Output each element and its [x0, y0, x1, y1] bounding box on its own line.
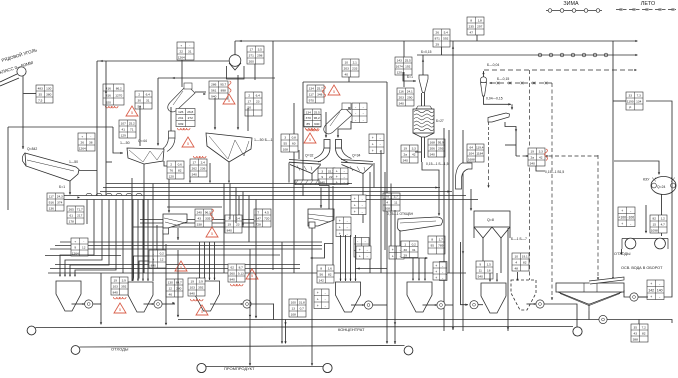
wire elbow b: [235, 188, 237, 224]
svg-text:9,13: 9,13: [238, 272, 244, 276]
feeder bar under centrifuges: [295, 180, 319, 185]
svg-text:130: 130: [168, 281, 173, 285]
svg-text:0,6: 0,6: [178, 163, 183, 167]
svg-text:338: 338: [197, 223, 202, 227]
pump thickener overflow: [630, 293, 638, 301]
svg-text:+: +: [317, 298, 319, 302]
wire vertical x449: [448, 130, 450, 273]
left centrifuge flare pipe: [314, 148, 330, 162]
wire H2 elbow feed b: [139, 230, 163, 279]
svg-text:416: 416: [106, 86, 111, 90]
wire main vertical x273: [272, 41, 274, 270]
svg-text:12: 12: [169, 287, 173, 291]
svg-text:0,15—1 Б—1,5: 0,15—1 Б—1,5: [426, 162, 449, 166]
svg-text:7,3: 7,3: [637, 94, 642, 98]
hopper bin H1: [56, 281, 81, 311]
plus-minus table right of centrifuges: [369, 134, 384, 154]
wire dashed vertical x552: [551, 83, 553, 300]
wire bus y255: [150, 254, 280, 256]
wire C4 feed: [403, 72, 416, 81]
svg-text:+: +: [392, 248, 394, 252]
arrowhead feed H2 0: [132, 279, 134, 281]
pump P3: [243, 300, 251, 308]
screen S1 inclined screen body: [22, 153, 79, 181]
wire T15 feed: [403, 41, 405, 57]
table T29: [254, 209, 271, 227]
product line circle left (concentrate): [27, 326, 36, 335]
svg-text:816: 816: [106, 93, 111, 97]
svg-text:2: 2: [138, 93, 140, 97]
triangle marker 5 centrifuges: [304, 133, 316, 143]
wire riser x453: [452, 41, 454, 330]
arrowhead H1 feed 1: [59, 275, 61, 277]
wire feed S3 a: [214, 98, 216, 129]
arrowhead x453 onto L1: [452, 327, 454, 330]
red perforation under T35: [190, 299, 203, 301]
arrowhead S4 out descent: [515, 129, 517, 132]
wire C5 vent up: [483, 71, 485, 77]
svg-text:Р: Р: [629, 106, 631, 110]
svg-text:+: +: [372, 143, 374, 147]
svg-text:-: -: [355, 118, 356, 122]
wire dashed vertical x529: [529, 70, 531, 298]
label othody right: [614, 252, 631, 256]
label 0,15-1 link: [545, 170, 564, 174]
arrowhead y61 left end: [100, 60, 103, 62]
wire S4 reject dashed: [488, 122, 490, 150]
svg-text:940: 940: [314, 122, 319, 126]
svg-text:-: -: [630, 222, 631, 226]
wire flotation side drop: [645, 205, 647, 233]
svg-text:60: 60: [292, 142, 296, 146]
curved screen S5: [397, 217, 442, 231]
screen S2 Q44: [127, 148, 164, 164]
wire HX bottom out pipe: [422, 137, 425, 162]
arrowhead into S4: [511, 107, 513, 110]
table T20 above centrifuges: [304, 115, 321, 127]
table T36: [111, 277, 128, 295]
wire vertical x387: [386, 82, 388, 343]
wire feeder link: [319, 186, 329, 220]
wire hopper H out to pump 5: [527, 303, 537, 305]
wire tank feed: [320, 188, 322, 209]
svg-text:371: 371: [249, 54, 254, 58]
svg-text:728: 728: [256, 223, 261, 227]
wire low bus y273: [48, 272, 466, 274]
arrowhead H5 feed b: [418, 279, 420, 281]
svg-text:Q=32: Q=32: [305, 154, 314, 158]
svg-text:3,9: 3,9: [122, 279, 127, 283]
wire feed H4 drop 3: [355, 235, 357, 281]
svg-text:-: -: [659, 295, 660, 299]
svg-text:95,9: 95,9: [438, 141, 444, 145]
svg-text:Б=1: Б=1: [59, 185, 65, 189]
table T12: [304, 109, 321, 127]
svg-text:+: +: [650, 295, 652, 299]
plus-minus table T61: [352, 103, 367, 123]
svg-text:33: 33: [629, 94, 633, 98]
wire T25 link: [536, 166, 545, 171]
svg-text:Q=8: Q=8: [487, 218, 494, 222]
wire S6 top line: [167, 206, 222, 208]
arrowhead x256 onto y319: [255, 316, 257, 319]
label B=1 under S1: [59, 185, 65, 189]
red perforation above T22: [193, 156, 206, 158]
svg-text:3: 3: [321, 169, 323, 173]
table T11: [307, 85, 324, 103]
wire feed tube left centrifuge: [325, 112, 327, 137]
arrowhead S6 underflow: [177, 237, 179, 240]
wire T10 drop x182: [181, 60, 183, 87]
arrowhead x395 onto line1: [394, 322, 396, 325]
svg-text:231: 231: [178, 116, 183, 120]
wire return line y61 to elevator: [97, 60, 230, 62]
svg-text:4: 4: [515, 261, 517, 265]
arrowhead on bus after S1 drop: [77, 196, 80, 198]
wire T44 stub: [638, 320, 640, 325]
wire H6 feed b: [496, 273, 498, 281]
arrowhead header right end: [635, 40, 638, 42]
pump P2: [154, 300, 162, 308]
svg-text:3,9: 3,9: [199, 280, 204, 284]
svg-text:23: 23: [236, 223, 240, 227]
wire left bus y255: [45, 255, 121, 257]
wire vertical x381: [380, 150, 382, 273]
svg-text:200: 200: [249, 60, 254, 64]
svg-text:130: 130: [46, 87, 51, 91]
svg-text:-: -: [363, 105, 364, 109]
svg-text:43: 43: [198, 217, 202, 221]
wire collection bus y195.5: [57, 195, 466, 197]
svg-text:108: 108: [291, 313, 296, 317]
table T10: [177, 42, 194, 60]
table T37: [228, 264, 245, 282]
arrowhead x508 onto concentrate line: [507, 327, 509, 330]
svg-text:42: 42: [539, 156, 543, 160]
pump P1: [85, 300, 93, 308]
hopper bin H5: [407, 282, 432, 312]
svg-text:203: 203: [399, 96, 404, 100]
arrowhead x101 onto concentrate line: [100, 322, 102, 325]
svg-text:920: 920: [106, 100, 111, 104]
arrowhead H5 feed a: [412, 279, 414, 281]
svg-text:939: 939: [178, 122, 183, 126]
wire waste collect line y319.5: [178, 319, 599, 321]
svg-text:290: 290: [407, 96, 412, 100]
red squiggle right of T11: [323, 86, 326, 98]
svg-text:348: 348: [317, 93, 322, 97]
svg-text:11: 11: [479, 269, 482, 273]
arrowhead duct into filter: [470, 208, 472, 211]
wire right border vertical x613: [612, 41, 614, 278]
red perforation under T4: [105, 106, 118, 108]
wire C5 underflow: [484, 96, 512, 104]
plus-minus table T51 recycle water: [647, 280, 664, 300]
svg-text:120: 120: [169, 175, 174, 179]
conveyor belt upper line: [0, 74, 17, 82]
wire H2 elbow feed a: [134, 225, 158, 279]
bent pipe cyclone C1: [163, 131, 175, 152]
table T22: [190, 159, 207, 177]
label Q=8 filter: [487, 218, 494, 222]
wire feed H4 drop 1: [345, 235, 347, 281]
product line circle right (concentrate): [573, 327, 582, 336]
arrowhead into pump 4: [435, 304, 437, 306]
svg-text:5,4: 5,4: [444, 31, 449, 35]
table T5: [135, 91, 152, 109]
table T41: [401, 241, 418, 258]
label Q=44 S2: [138, 139, 147, 143]
svg-text:119,4: 119,4: [476, 146, 484, 150]
svg-text:25,5: 25,5: [314, 111, 320, 115]
wire T13 drop: [348, 77, 350, 82]
svg-text:ОТХОДЫ: ОТХОДЫ: [614, 252, 631, 256]
svg-text:340: 340: [399, 102, 404, 106]
svg-text:3,3: 3,3: [412, 147, 417, 151]
svg-text:840: 840: [227, 229, 232, 233]
wire elbow x387 to H4: [356, 268, 388, 270]
svg-text:24,3: 24,3: [57, 195, 63, 199]
svg-text:1—50: 1—50: [120, 141, 130, 145]
svg-text:388: 388: [633, 338, 638, 342]
plus-minus table T56: [314, 289, 329, 309]
svg-text:+100: +100: [618, 216, 626, 220]
wire collection bus y199.5: [57, 199, 478, 201]
svg-text:1,7: 1,7: [439, 238, 444, 242]
arrowhead into pump 0: [83, 303, 85, 305]
svg-text:+: +: [74, 240, 76, 244]
svg-text:56: 56: [320, 273, 324, 277]
svg-text:233: 233: [352, 67, 357, 71]
label 0,04-0,15: [486, 97, 503, 101]
table T45: [650, 215, 667, 233]
label KONCENTRAT: [338, 327, 365, 332]
svg-text:95: 95: [431, 244, 435, 248]
wire C4 to HX pipe: [422, 93, 425, 106]
label ZIMA (winter legend title): [563, 1, 579, 7]
arrowhead feed H3 1: [204, 278, 206, 280]
arrowhead x552 bottom: [551, 297, 553, 300]
table T35: [188, 278, 205, 296]
wire feed H2 drop 3: [147, 200, 149, 282]
svg-text:-: -: [380, 136, 381, 140]
wire cells tailings drop: [621, 249, 623, 254]
wire filter side leg: [507, 228, 509, 331]
wire flotation underflow 2: [661, 231, 663, 236]
label 1-50 S2: [120, 141, 130, 145]
svg-text:23: 23: [256, 100, 260, 104]
wire C2 tip down to C1: [170, 107, 172, 131]
wire H5 feed c: [424, 258, 426, 280]
arrowhead thickener feed x613: [612, 277, 614, 280]
wire feed tube right centrifuge: [338, 121, 351, 137]
wire S5 underflow: [399, 231, 401, 258]
red perforation above triangle: [305, 128, 318, 130]
wire vertical x395: [394, 210, 396, 344]
arrowhead x285 onto L2: [284, 341, 286, 344]
wire dashed vertical x598: [597, 155, 599, 278]
svg-text:40: 40: [345, 73, 349, 77]
wire tank underflow long: [311, 228, 313, 365]
label B-1 B-7: [511, 237, 527, 241]
svg-text:916: 916: [49, 201, 54, 205]
svg-text:71,7: 71,7: [77, 208, 83, 212]
wire vertical x463: [462, 130, 464, 331]
svg-text:9: 9: [321, 175, 323, 179]
svg-text:340: 340: [403, 159, 408, 163]
svg-text:392: 392: [198, 286, 203, 290]
arrowhead into flotation: [658, 172, 660, 175]
arrowhead tailings: [620, 252, 622, 255]
svg-text:6,4: 6,4: [146, 93, 151, 97]
svg-text:1688: 1688: [468, 158, 475, 162]
svg-text:178: 178: [69, 220, 74, 224]
label B=27 at HX: [436, 119, 444, 123]
svg-text:-: -: [347, 219, 348, 223]
bucket elevator symbol: [227, 55, 245, 79]
wire vertical x370: [369, 172, 371, 273]
arrowhead elbow H4: [357, 267, 360, 269]
wire dashed branch y156: [516, 155, 598, 157]
svg-text:-: -: [630, 209, 631, 213]
arrowhead bus y187 end: [435, 186, 438, 188]
table T17: [467, 17, 484, 35]
wire feed S3 b: [237, 75, 239, 129]
svg-text:483: 483: [38, 87, 43, 91]
arrowhead into S5: [438, 213, 440, 216]
arrowhead S3 discharge: [228, 181, 230, 183]
svg-text:-: -: [362, 204, 363, 208]
svg-text:208: 208: [385, 207, 390, 211]
svg-text:КЗУ: КЗУ: [643, 178, 650, 182]
arrowhead feed H3 3: [214, 278, 216, 280]
svg-text:4: 4: [386, 201, 388, 205]
svg-text:8: 8: [470, 19, 472, 23]
svg-text:-: -: [325, 291, 326, 295]
wire riser vertical x97: [96, 61, 98, 196]
wire pump4 out: [373, 304, 387, 306]
red squiggle right of T30: [211, 209, 214, 221]
wire pump3 out: [251, 303, 274, 305]
wire distribution drop e: [75, 200, 116, 277]
svg-text:-: -: [363, 112, 364, 116]
svg-text:82: 82: [178, 169, 182, 173]
svg-text:340: 340: [530, 162, 535, 166]
table T26: [467, 144, 484, 162]
hopper bin H6: [481, 283, 506, 313]
red perforation under T37: [230, 284, 243, 286]
middlings line circle left: [197, 363, 206, 372]
svg-text:370: 370: [306, 116, 311, 120]
svg-text:ЛЕТО: ЛЕТО: [641, 1, 655, 7]
svg-text:0,15—1 В1,5: 0,15—1 В1,5: [545, 170, 564, 174]
wire S6 underflow: [177, 228, 179, 240]
table T6: [209, 81, 228, 99]
svg-text:380: 380: [46, 93, 51, 97]
wire drop onto bus x210: [209, 163, 211, 183]
wire into sieve S4: [511, 104, 513, 109]
wire right V tip down: [362, 174, 364, 224]
flotation cells bank: [622, 238, 668, 249]
svg-text:26,8: 26,8: [187, 110, 193, 114]
svg-text:35: 35: [39, 93, 43, 97]
wire feed H3 drop 0: [199, 242, 201, 280]
svg-text:+: +: [339, 226, 341, 230]
wire elevator up to top header: [234, 41, 236, 55]
slanted cyclone C3: [324, 103, 352, 134]
svg-text:116: 116: [399, 90, 404, 94]
svg-text:-: -: [83, 240, 84, 244]
red squiggle right of T6: [228, 81, 231, 93]
plus-minus table T59: [433, 262, 446, 280]
svg-text:+: +: [359, 255, 361, 259]
svg-text:+: +: [317, 291, 319, 295]
wire top header y41: [235, 40, 637, 42]
wire S4 out: [505, 122, 516, 156]
svg-text:192: 192: [405, 65, 410, 69]
wire summer legend dashed line: [616, 9, 676, 11]
svg-text:1,2: 1,2: [661, 217, 666, 221]
svg-text:Б=27: Б=27: [436, 119, 444, 123]
arrowhead into pump 5: [534, 303, 536, 305]
svg-text:2: 2: [248, 94, 250, 98]
arrowhead x387 onto L2: [386, 341, 388, 344]
red squiggle right of T25: [545, 149, 548, 161]
svg-text:-: -: [362, 197, 363, 201]
arrowhead C5 vent up: [482, 72, 484, 75]
wire elbow d: [248, 196, 250, 243]
plus-minus table T54: [333, 168, 348, 185]
svg-text:2,4: 2,4: [201, 161, 206, 165]
svg-text:82: 82: [642, 332, 646, 336]
tailings product line: [80, 346, 405, 348]
table T4: [103, 84, 124, 105]
svg-text:2а: 2а: [404, 153, 408, 157]
svg-text:168: 168: [430, 141, 435, 145]
svg-text:100: 100: [291, 301, 296, 305]
table T27: [383, 193, 400, 211]
svg-text:48: 48: [515, 267, 519, 271]
svg-text:-: -: [400, 248, 401, 252]
svg-text:898: 898: [221, 89, 226, 93]
wire x113 into S2: [113, 127, 123, 153]
table T48: [289, 299, 306, 317]
table T42: [512, 253, 529, 271]
svg-text:15: 15: [653, 223, 657, 227]
svg-text:Б=0,15: Б=0,15: [421, 50, 432, 54]
triangle marker under T35: [196, 305, 208, 315]
arrowhead tank feed: [320, 205, 322, 208]
wire feed H2 drop 0: [132, 200, 134, 282]
winter legend dot markers: [548, 9, 600, 13]
svg-text:+: +: [354, 197, 356, 201]
table T16: [397, 88, 414, 106]
middlings line circle right: [323, 363, 332, 372]
table T7: [245, 92, 262, 116]
arrowhead feed H4 0: [340, 279, 342, 281]
svg-text:840: 840: [190, 292, 195, 296]
svg-text:82: 82: [523, 261, 527, 265]
svg-text:24,1: 24,1: [407, 90, 413, 94]
wire pump6 out: [544, 304, 577, 327]
arrowhead feed H2 2: [142, 279, 144, 281]
svg-text:108: 108: [283, 148, 288, 152]
svg-text:Б=1: Б=1: [407, 75, 413, 79]
table T23: [119, 120, 136, 138]
svg-text:13: 13: [292, 307, 296, 311]
svg-text:+: +: [435, 270, 437, 274]
table T25b: [528, 148, 545, 166]
